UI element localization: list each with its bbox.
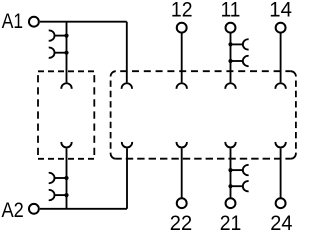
svg-text:22: 22: [170, 211, 192, 231]
wire S6 link: [231, 60, 243, 62]
terminal 21: [226, 198, 236, 208]
wire S7 link: [231, 185, 243, 187]
pin socket 12: [177, 83, 187, 89]
wire A1 riser: [126, 22, 128, 83]
accessory socket S1: [49, 30, 55, 40]
relay outline right edge (dashed): [295, 76, 297, 153]
pin socket 24: [275, 142, 285, 148]
accessory socket S4: [49, 173, 55, 183]
wire 24 vertical: [280, 148, 282, 198]
wire 21 vertical: [230, 148, 232, 198]
wire 22 vertical: [181, 148, 183, 198]
coil module outline bottom edge (dashed): [38, 158, 94, 160]
relay outline corner bottom-right: [291, 154, 296, 159]
relay outline corner top-left: [111, 71, 116, 76]
terminal 11: [226, 23, 236, 33]
wire S8 link: [231, 169, 243, 171]
wire coil column top: [66, 22, 68, 83]
svg-text:A2: A2: [2, 198, 24, 222]
wire A1 horizontal: [40, 21, 127, 23]
pin socket relay bottom-left: [122, 142, 132, 148]
relay outline left edge (dashed): [110, 76, 112, 153]
accessory socket S6: [243, 56, 249, 66]
terminal 12: [177, 23, 187, 33]
svg-text:11: 11: [221, 0, 241, 22]
terminal 22: [177, 198, 187, 208]
svg-text:14: 14: [269, 0, 292, 22]
accessory socket S3: [49, 190, 55, 200]
pin socket coil bottom: [61, 142, 71, 148]
junction dot S1: [64, 34, 68, 38]
wire 14 vertical: [280, 33, 282, 83]
junction dot S5: [228, 42, 232, 46]
accessory socket S2: [49, 48, 55, 58]
terminal A2: [29, 204, 39, 214]
wire 11 vertical: [230, 33, 232, 83]
junction dot S7: [228, 184, 232, 188]
junction dot S3: [64, 193, 68, 197]
wire A2 riser: [126, 148, 128, 209]
wire 12 vertical: [181, 33, 183, 83]
junction dot S4: [64, 176, 68, 180]
pin socket coil top: [61, 83, 71, 89]
pin socket 11: [225, 83, 235, 89]
coil module outline left edge (dashed): [37, 71, 39, 159]
junction dot S2: [64, 51, 68, 55]
accessory socket S5: [243, 39, 249, 49]
pin socket relay top-left: [122, 83, 132, 89]
relay outline corner bottom-left: [111, 154, 116, 159]
wire A2 horizontal: [40, 208, 127, 210]
terminal 14: [276, 23, 286, 33]
wire S1 link: [55, 35, 67, 37]
coil module outline right edge (dashed): [93, 71, 95, 159]
wire coil column bottom: [66, 148, 68, 209]
pin socket 22: [177, 142, 187, 148]
relay outline bottom edge (dashed): [116, 158, 291, 160]
pin socket 14: [275, 83, 285, 89]
svg-text:21: 21: [220, 211, 242, 231]
accessory socket S7: [243, 181, 249, 191]
wire S3 link: [55, 194, 67, 196]
junction dot S8: [228, 168, 232, 172]
junction dot S6: [228, 59, 232, 63]
terminal A1: [29, 17, 39, 27]
relay outline corner top-right: [291, 71, 296, 76]
terminal 24: [276, 198, 286, 208]
svg-text:A1: A1: [2, 9, 23, 33]
wire S2 link: [55, 52, 67, 54]
wire S5 link: [231, 43, 243, 45]
accessory socket S8: [243, 165, 249, 175]
pin socket 21: [225, 142, 235, 148]
svg-text:12: 12: [171, 0, 193, 22]
svg-text:24: 24: [270, 211, 292, 231]
relay outline top edge (dashed): [116, 70, 291, 72]
wire S4 link: [55, 177, 67, 179]
coil module outline top edge (dashed): [38, 70, 94, 72]
